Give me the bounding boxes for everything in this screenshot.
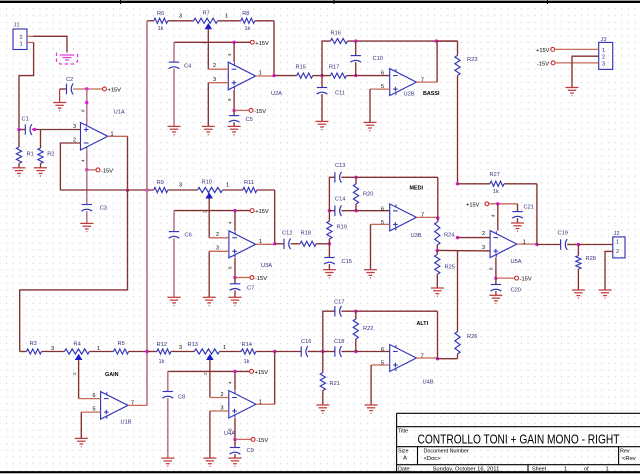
svg-text:R8: R8 [242,11,249,17]
svg-text:J1: J1 [14,23,20,29]
svg-text:1: 1 [259,71,262,77]
svg-text:1: 1 [20,42,23,48]
svg-text:R10: R10 [202,180,212,186]
svg-text:Rev: Rev [620,449,630,455]
svg-text:3: 3 [179,13,182,19]
svg-text:Sheet: Sheet [532,466,547,472]
svg-text:8: 8 [228,266,233,269]
svg-text:R9: R9 [157,180,164,186]
svg-text:R13: R13 [188,342,198,348]
svg-text:1: 1 [564,466,567,472]
svg-text:5: 5 [381,361,384,367]
svg-text:R18: R18 [301,231,311,237]
svg-text:2: 2 [216,232,219,238]
svg-text:3: 3 [179,345,182,351]
svg-text:2: 2 [482,231,485,237]
svg-text:A: A [403,456,407,462]
svg-text:-15V: -15V [255,276,267,282]
svg-text:C17: C17 [334,300,344,306]
svg-text:8: 8 [227,98,232,101]
svg-text:R11: R11 [244,180,254,186]
svg-text:C20: C20 [511,288,521,294]
svg-text:U1B: U1B [121,420,132,426]
svg-text:<Doc>: <Doc> [424,456,442,462]
svg-text:R1: R1 [27,152,34,158]
svg-text:C11: C11 [335,91,345,97]
svg-text:4: 4 [491,214,496,217]
svg-text:R4: R4 [74,342,81,348]
svg-text:1: 1 [225,13,228,19]
svg-text:3: 3 [179,183,182,189]
svg-text:R5: R5 [118,341,125,347]
svg-text:1: 1 [223,345,226,351]
svg-text:C16: C16 [301,339,311,345]
svg-text:+15V: +15V [255,209,269,215]
svg-text:C15: C15 [342,259,352,265]
svg-text:R25: R25 [445,265,455,271]
svg-text:2: 2 [20,35,23,41]
svg-text:4: 4 [228,221,233,224]
svg-text:<Rev: <Rev [622,456,636,462]
svg-text:BASSI: BASSI [423,91,440,97]
svg-text:2: 2 [213,63,216,69]
svg-text:R28: R28 [586,256,596,262]
svg-text:4: 4 [80,159,85,162]
svg-text:Title: Title [398,428,408,434]
svg-text:+15V: +15V [255,41,269,47]
svg-text:C2: C2 [66,77,73,83]
svg-text:Document Number: Document Number [424,449,469,455]
svg-text:-15V: -15V [101,168,113,174]
svg-text:R16: R16 [331,30,341,36]
svg-text:6: 6 [381,70,384,76]
svg-text:U5A: U5A [511,259,522,265]
svg-text:1k: 1k [159,359,165,365]
svg-text:C1: C1 [22,117,29,123]
svg-text:U3A: U3A [261,263,272,269]
svg-text:2: 2 [221,392,224,398]
svg-text:8: 8 [489,267,494,270]
svg-text:1k: 1k [493,189,499,195]
svg-text:C4: C4 [184,64,191,70]
svg-text:2: 2 [203,372,208,375]
svg-text:8: 8 [80,109,85,112]
svg-text:C10: C10 [373,56,383,62]
svg-text:R12: R12 [157,342,167,348]
svg-text:R21: R21 [330,381,340,387]
svg-text:7: 7 [421,213,424,219]
svg-text:+15V: +15V [536,48,550,54]
svg-text:1: 1 [616,239,619,245]
svg-text:C9: C9 [247,448,254,454]
svg-text:R24: R24 [444,233,454,239]
svg-text:1: 1 [259,400,262,406]
svg-text:R27: R27 [490,172,500,178]
svg-text:Size: Size [398,449,409,455]
svg-text:4: 4 [228,381,233,384]
svg-text:6: 6 [381,206,384,212]
svg-text:U2B: U2B [404,92,415,98]
svg-text:+15V: +15V [466,202,480,208]
svg-text:R20: R20 [363,192,373,198]
svg-text:R14: R14 [242,342,252,348]
svg-text:1k: 1k [244,359,250,365]
svg-text:R2: R2 [47,152,54,158]
svg-text:7: 7 [131,400,134,406]
svg-text:R19: R19 [337,225,347,231]
svg-text:U2A: U2A [271,91,282,97]
svg-text:8: 8 [228,428,233,431]
svg-text:1: 1 [523,239,526,245]
svg-text:3: 3 [51,346,54,352]
svg-text:C8: C8 [178,395,185,401]
svg-text:Sunday, October 16, 2011: Sunday, October 16, 2011 [433,466,500,472]
svg-text:of: of [584,466,589,472]
svg-text:J2: J2 [614,231,620,237]
svg-text:3: 3 [602,61,605,67]
svg-text:R6: R6 [157,11,164,17]
svg-text:1k: 1k [158,26,164,32]
svg-text:C12: C12 [282,231,292,237]
svg-text:R7: R7 [203,10,210,16]
svg-text:C19: C19 [558,230,568,236]
svg-text:U1A: U1A [114,110,125,116]
svg-text:J3: J3 [601,37,607,43]
svg-text:6: 6 [381,347,384,353]
svg-text:2: 2 [72,372,77,375]
svg-text:U4B: U4B [423,380,434,386]
svg-text:4: 4 [227,53,232,56]
svg-text:+15V: +15V [255,370,269,376]
svg-text:C6: C6 [185,233,192,239]
svg-text:7: 7 [421,78,424,84]
svg-text:C7: C7 [247,286,254,292]
svg-text:3: 3 [482,245,485,251]
svg-text:5: 5 [381,220,384,226]
svg-text:GAIN: GAIN [105,372,119,378]
svg-text:-15V: -15V [256,438,268,444]
svg-text:MEDI: MEDI [410,185,424,191]
svg-text:2: 2 [602,55,605,61]
svg-text:R3: R3 [30,341,37,347]
svg-text:1: 1 [259,239,262,245]
svg-text:C18: C18 [334,339,344,345]
svg-text:R22: R22 [363,326,373,332]
svg-text:2: 2 [616,249,619,255]
svg-text:C5: C5 [246,117,253,123]
svg-text:U3B: U3B [411,233,422,239]
svg-text:-15V: -15V [254,109,266,115]
svg-text:CONTROLLO TONI + GAIN MONO - R: CONTROLLO TONI + GAIN MONO - RIGHT [418,433,620,447]
svg-text:R15: R15 [296,64,306,70]
svg-text:ALTI: ALTI [417,321,429,327]
svg-text:C21: C21 [524,204,534,210]
svg-text:R26: R26 [467,334,477,340]
svg-text:R17: R17 [329,64,339,70]
svg-text:-15V: -15V [537,62,549,68]
svg-text:C13: C13 [335,163,345,169]
svg-text:+15V: +15V [108,88,122,94]
svg-text:R23: R23 [467,57,477,63]
svg-text:7: 7 [421,354,424,360]
svg-text:1: 1 [602,48,605,54]
svg-text:1: 1 [606,466,609,472]
svg-text:1: 1 [226,183,229,189]
svg-text:Date:: Date: [398,466,411,472]
svg-text:1k: 1k [244,26,250,32]
svg-text:-15V: -15V [520,277,532,283]
svg-text:C14: C14 [335,197,345,203]
svg-text:C3: C3 [100,206,107,212]
